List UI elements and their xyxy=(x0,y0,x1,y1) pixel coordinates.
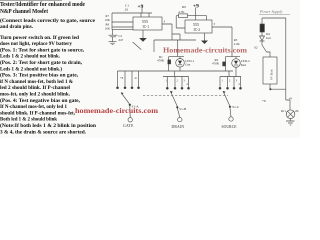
op-amp IC2 box xyxy=(185,20,212,33)
wire ganged switch dashed link xyxy=(143,95,228,97)
resistor R2 frame xyxy=(226,57,241,71)
ground under IC2 xyxy=(204,33,206,41)
wire diagonal pin2-6 xyxy=(133,42,142,50)
svg-text:(Pos. 4: Test negative bias o: (Pos. 4: Test negative bias on gate, xyxy=(0,97,81,104)
svg-text:+9: +9 xyxy=(120,76,124,80)
svg-text:Both led 1 & 2 should blink: Both led 1 & 2 should blink xyxy=(0,117,57,123)
svg-text:If N-channel mos-fet, only led: If N-channel mos-fet, only led 1 xyxy=(0,104,67,110)
svg-text:and drain pins.: and drain pins. xyxy=(0,24,34,30)
svg-text:Grn: Grn xyxy=(185,63,190,67)
lamp DS1 xyxy=(286,110,295,119)
svg-text:S1-B: S1-B xyxy=(179,107,187,111)
svg-text:Leds 1 & 2 should not blink.): Leds 1 & 2 should not blink.) xyxy=(0,65,62,72)
switch contact dots S1-B xyxy=(166,87,169,90)
resistor R1 body xyxy=(168,60,171,65)
wire stub left xyxy=(153,40,155,52)
wire arm to gate terminal xyxy=(129,106,131,118)
ground under lamp xyxy=(286,119,295,126)
svg-text:Grn: Grn xyxy=(266,36,271,40)
svg-text:S1-C: S1-C xyxy=(232,105,240,109)
resistor R1 frame xyxy=(169,57,184,71)
svg-text:GATE: GATE xyxy=(123,124,134,128)
wire top rail left xyxy=(112,12,152,14)
terminal DRAIN xyxy=(178,117,182,121)
svg-text:Leds 1 & 2 should not blink.: Leds 1 & 2 should not blink. xyxy=(0,54,61,60)
switch arm S1-A xyxy=(121,93,130,105)
junction dot xyxy=(269,88,271,90)
wire IC2 pin3 out xyxy=(212,27,232,57)
switch arm pivot dots xyxy=(129,104,131,106)
svg-text:(Note:If both leds 1 & 2 blink: (Note:If both leds 1 & 2 blink in positi… xyxy=(0,122,96,129)
svg-text:.01: .01 xyxy=(124,8,129,12)
svg-text:(Pos. 2: Test for short gate: (Pos. 2: Test for short gate to drain, xyxy=(0,59,83,66)
wire IC1 left pins xyxy=(112,22,133,27)
wire IC1 pin3 out xyxy=(162,24,180,40)
svg-text:DRAIN: DRAIN xyxy=(172,125,185,129)
svg-text:555: 555 xyxy=(142,19,148,24)
LED D1 xyxy=(176,59,185,68)
svg-text:Red: Red xyxy=(241,63,247,67)
svg-text:3 & 4, the drain & source are: 3 & 4, the drain & source are shorted. xyxy=(0,129,87,135)
svg-text:10K: 10K xyxy=(105,18,111,22)
rotary switch S1-B contacts xyxy=(163,77,189,87)
wire S1-B feed xyxy=(174,71,176,77)
battery B1 xyxy=(263,57,277,84)
op-amp IC1 box xyxy=(133,17,162,30)
svg-text:Homemade-circuits.com: Homemade-circuits.com xyxy=(163,46,248,55)
wire lamp drop xyxy=(289,100,291,110)
svg-text:9V Batt: 9V Batt xyxy=(270,69,274,80)
switch contact dots S1-C xyxy=(219,87,222,90)
wire battery negative xyxy=(270,84,286,89)
svg-text:S2: S2 xyxy=(254,46,258,50)
wire +9 to IC2 xyxy=(195,8,197,21)
LED D2 cathode bar xyxy=(234,64,238,66)
ground under IC1 xyxy=(142,30,144,38)
svg-text:(Connect leads correctly to ga: (Connect leads correctly to gate, source xyxy=(0,17,96,24)
svg-text:(Pos. 1: Test for short gate: (Pos. 1: Test for short gate to source, xyxy=(0,46,85,53)
svg-text:if N channel mos-fet, both led: if N channel mos-fet, both led 1 & xyxy=(0,79,74,85)
svg-text:mos-fet, only led 2 should bli: mos-fet, only led 2 should blink. xyxy=(0,92,71,98)
switch arm arrowheads xyxy=(121,93,124,95)
wire arm to drain terminal xyxy=(177,108,180,117)
svg-text:4.7K: 4.7K xyxy=(178,10,185,14)
svg-text:10K: 10K xyxy=(105,27,111,31)
terminal GATE xyxy=(128,118,132,122)
switch arm S1-B xyxy=(170,91,177,106)
svg-text:.047: .047 xyxy=(118,38,124,42)
wire S1-C feed xyxy=(228,71,230,77)
svg-text:+9: +9 xyxy=(262,99,266,103)
wire +9 drop to rail xyxy=(141,8,143,13)
wire rail mid xyxy=(154,39,196,41)
svg-text:R9: R9 xyxy=(182,5,186,9)
wire bottom long rail xyxy=(118,70,234,72)
resistor R10 xyxy=(261,18,263,24)
svg-text:does not light, replace 9V bat: does not light, replace 9V battery xyxy=(0,41,72,47)
svg-text:Power Supply: Power Supply xyxy=(259,9,283,14)
ground under C2 xyxy=(109,42,117,45)
terminal SOURCE xyxy=(229,117,233,121)
power supply top rail xyxy=(262,18,290,100)
svg-text:homemade-circuits.com: homemade-circuits.com xyxy=(75,106,159,115)
capacitor C2 xyxy=(109,30,118,42)
svg-text:470R: 470R xyxy=(212,62,220,66)
svg-text:470R: 470R xyxy=(157,59,165,63)
svg-text:IC-2: IC-2 xyxy=(194,28,201,32)
svg-text:should blink. If P-channel mo: should blink. If P-channel mos-fet, xyxy=(0,110,76,116)
svg-text:SOURCE: SOURCE xyxy=(222,125,238,129)
svg-text:led 2 should blink. If P-chan: led 2 should blink. If P-channel xyxy=(0,85,71,91)
svg-text:+9: +9 xyxy=(138,4,144,10)
svg-text:IC-1: IC-1 xyxy=(143,25,150,29)
svg-text:Turn power switch on. If gree: Turn power switch on. If green led xyxy=(0,35,79,41)
switch contact dots S1-A xyxy=(116,60,242,109)
wire left vertical bus xyxy=(112,13,133,30)
instruction text block xyxy=(0,1,96,135)
svg-text:N&P channel Mosfet: N&P channel Mosfet xyxy=(0,8,49,15)
rotary switch S1-C contacts xyxy=(220,77,241,87)
svg-text:+9: +9 xyxy=(289,97,293,101)
rotary switch S1-A contacts xyxy=(118,71,139,86)
LED D2 xyxy=(232,59,241,68)
wire feed to LED1 xyxy=(177,40,179,57)
LED D1 arrow xyxy=(178,61,182,65)
switch arm S1-C xyxy=(223,91,230,106)
LED D1 cathode bar xyxy=(178,64,182,66)
svg-text:R11: R11 xyxy=(281,109,286,113)
schematic labels xyxy=(105,4,300,130)
svg-text:(Pos. 3: Test positive bias o: (Pos. 3: Test positive bias on gate, xyxy=(0,72,79,79)
switch S2 xyxy=(262,45,267,52)
resistor R2 body xyxy=(222,62,225,67)
LED D4 green xyxy=(260,32,265,45)
scan edge line xyxy=(0,0,62,2)
LED D2 arrow xyxy=(234,61,238,65)
wire arm to source terminal xyxy=(230,108,231,117)
svg-text:555: 555 xyxy=(193,22,199,27)
wire to battery xyxy=(267,52,271,57)
svg-text:+9: +9 xyxy=(193,4,199,10)
wire IC2 loop R9 xyxy=(176,16,206,28)
wire IC1 top pins xyxy=(141,13,149,17)
resistor R9 xyxy=(179,14,188,18)
